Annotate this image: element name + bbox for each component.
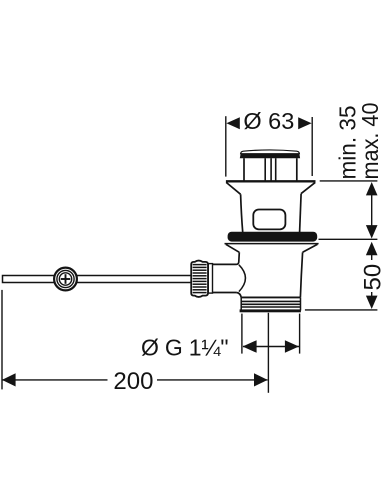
pop-up cap top lens <box>241 150 300 154</box>
dimension 200 right arrow <box>254 373 268 386</box>
flange left side <box>241 194 243 232</box>
svg-text:max. 40: max. 40 <box>357 103 381 180</box>
dimension G left arrow <box>243 340 257 353</box>
dimension 200 left extension line <box>1 290 3 390</box>
collar ring <box>208 264 212 294</box>
outlet center line <box>267 313 269 393</box>
dimension min35/max40 top arrow <box>366 182 378 195</box>
lower lip left bevel <box>226 244 240 252</box>
svg-text:Ø G 1¼": Ø G 1¼" <box>141 335 228 361</box>
reference line mounting surface <box>319 238 378 240</box>
port socket fillet arc <box>239 265 246 292</box>
dimension G right arrow <box>285 340 299 353</box>
ball joint cross horizontal <box>61 278 71 280</box>
side port bottom line <box>213 292 237 294</box>
dimension 200 shaft left segment <box>3 379 108 381</box>
flange right side <box>300 194 302 232</box>
rod ball joint inner circle <box>59 273 71 285</box>
pop-up cap black band <box>240 154 300 158</box>
outlet thread bottom bar <box>240 309 301 312</box>
flange top rim <box>226 180 316 182</box>
outlet thread right edge <box>300 297 302 310</box>
reference line outlet bottom <box>305 309 378 311</box>
outlet thread left edge <box>240 297 242 310</box>
cap stem right side <box>296 158 298 180</box>
dimension G left extension line <box>241 314 243 354</box>
svg-text:Ø 63: Ø 63 <box>243 108 294 134</box>
outlet thread top line <box>241 296 300 298</box>
dimension G shaft <box>243 346 299 348</box>
dimension 50 shaft lower segment <box>371 292 373 297</box>
dimension 200 shaft right segment <box>157 379 268 381</box>
rod ball joint middle circle <box>57 270 74 287</box>
outlet thread line 2 <box>241 300 300 302</box>
dimension Ø63 right extension line <box>311 117 313 176</box>
rod ball joint outer circle <box>54 268 77 291</box>
cap stem inner line 2 <box>270 158 272 180</box>
outlet thread line 4 <box>241 306 300 308</box>
dimension Ø63 right arrow <box>298 117 311 129</box>
dimension 50 shaft upper segment <box>371 254 373 260</box>
outlet thread line 3 <box>241 303 300 305</box>
dimension 50 bottom arrow <box>366 296 378 309</box>
cap stem left side <box>243 158 245 180</box>
body left side above port <box>236 252 239 264</box>
flange left bevel <box>226 182 240 194</box>
dimension 200 left arrow <box>2 373 16 386</box>
side port top line <box>213 263 237 265</box>
dimension min35/max40 bottom arrow <box>366 225 378 238</box>
pull rod <box>3 276 192 283</box>
knurl ribs <box>193 265 207 293</box>
ball joint cross vertical <box>65 274 67 284</box>
body right side <box>300 252 302 297</box>
svg-text:50: 50 <box>359 264 381 291</box>
dimension Ø63 left arrow <box>226 117 239 129</box>
overflow window <box>253 210 285 230</box>
reference line rim top <box>320 180 378 182</box>
rubber seal band <box>228 232 318 242</box>
dimension Ø63 left extension line <box>225 116 227 176</box>
port bottom to outlet curve <box>236 293 241 298</box>
knurled cap body <box>191 261 208 297</box>
cap stem inner line 3 <box>275 158 277 180</box>
lower lip line <box>225 243 319 245</box>
lower lip right bevel <box>303 244 318 252</box>
dimension G right extension line <box>299 314 301 354</box>
svg-text:200: 200 <box>113 368 153 395</box>
cap stem inner line 1 <box>264 158 266 180</box>
dimension 50 top arrow <box>366 242 378 255</box>
flange right bevel <box>301 182 315 193</box>
dimension min35/max40 shaft <box>371 194 373 226</box>
